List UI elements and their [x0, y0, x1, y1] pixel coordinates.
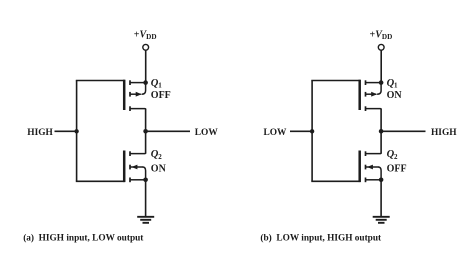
svg-text:ON: ON	[387, 90, 403, 101]
svg-text:+VDD: +VDD	[370, 29, 393, 41]
svg-text:2: 2	[394, 153, 398, 161]
svg-text:+VDD: +VDD	[134, 29, 157, 41]
svg-text:LOW: LOW	[264, 128, 288, 138]
svg-text:HIGH: HIGH	[27, 128, 53, 138]
svg-text:OFF: OFF	[387, 163, 407, 174]
svg-text:LOW: LOW	[195, 128, 219, 138]
svg-text:(b) LOW input, HIGH output: (b) LOW input, HIGH output	[260, 232, 382, 243]
svg-text:ON: ON	[151, 163, 167, 174]
svg-text:(a) HIGH input, LOW output: (a) HIGH input, LOW output	[23, 232, 144, 243]
svg-text:1: 1	[394, 82, 398, 90]
svg-text:OFF: OFF	[151, 90, 171, 101]
svg-text:HIGH: HIGH	[431, 128, 457, 138]
svg-text:1: 1	[158, 82, 162, 90]
svg-text:2: 2	[158, 153, 162, 161]
